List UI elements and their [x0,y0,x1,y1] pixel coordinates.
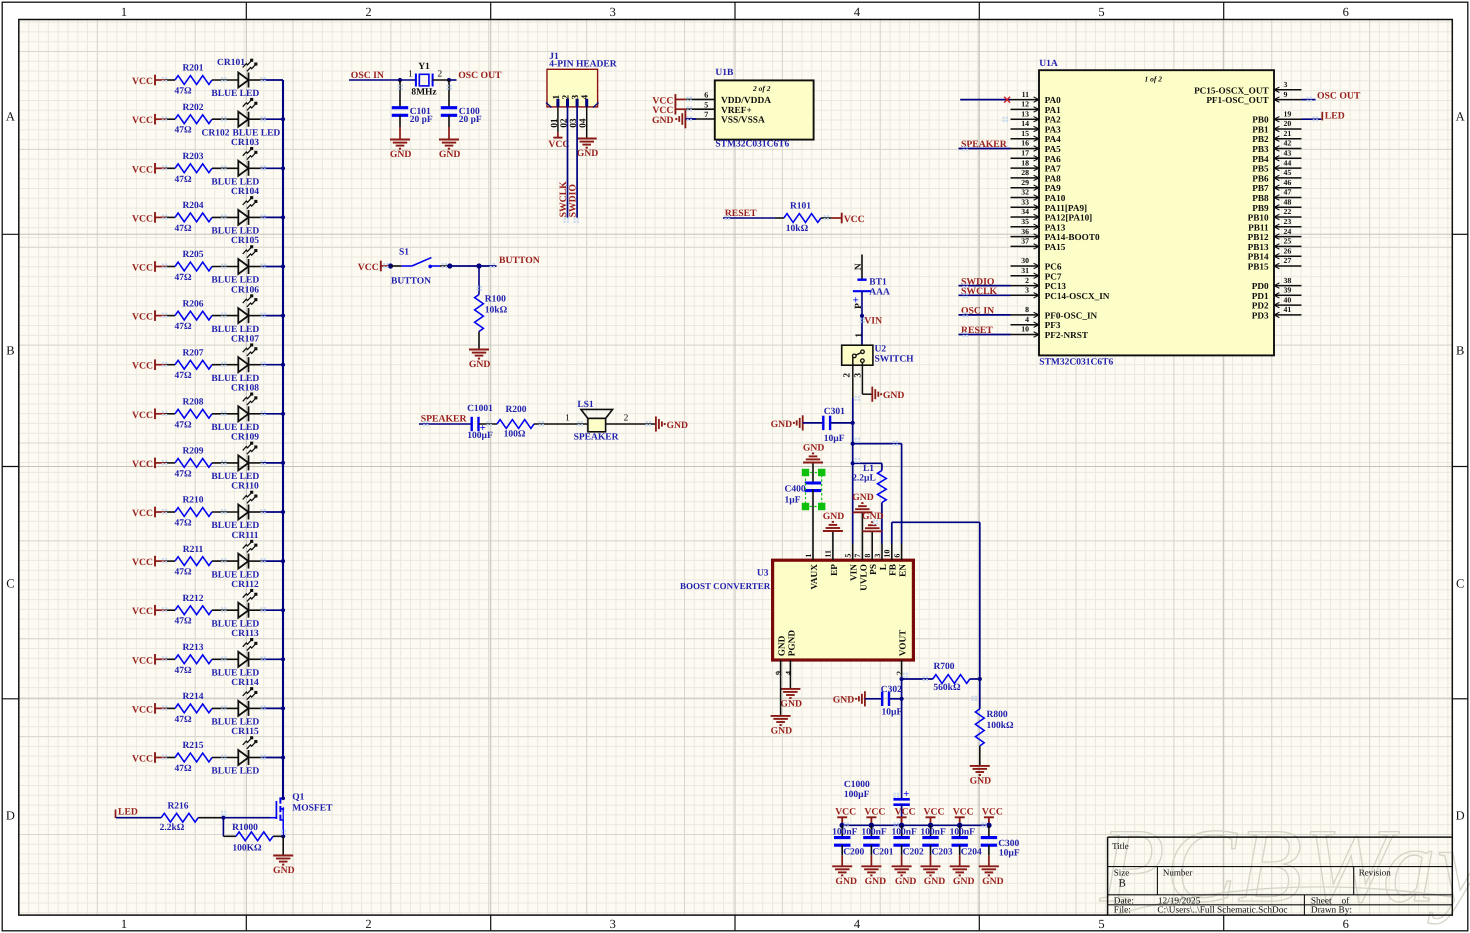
svg-text:PB6: PB6 [1252,173,1269,183]
svg-text:3: 3 [610,5,616,19]
svg-text:BLUE LED: BLUE LED [211,472,259,482]
svg-text:19: 19 [1284,109,1292,118]
svg-text:C300: C300 [998,839,1019,849]
svg-text:GND: GND [780,698,802,709]
svg-text:OSC IN: OSC IN [351,70,384,81]
svg-text:BLUE LED: BLUE LED [211,89,259,99]
svg-text:BLUE LED: BLUE LED [211,423,259,433]
svg-text:S1: S1 [399,247,409,257]
svg-text:22: 22 [1284,207,1292,216]
svg-text:GND: GND [833,695,855,706]
svg-text:R212: R212 [182,594,203,604]
svg-text:BUTTON: BUTTON [391,277,431,287]
svg-text:29: 29 [1021,178,1029,187]
svg-text:U3: U3 [757,568,769,578]
svg-text:VAUX: VAUX [810,564,820,590]
svg-text:9: 9 [774,671,783,675]
svg-text:1 of 2: 1 of 2 [1145,74,1163,83]
svg-text:5: 5 [1098,917,1104,931]
svg-text:VCC: VCC [358,262,379,273]
svg-text:N: N [853,263,864,270]
svg-text:BLUE LED: BLUE LED [211,276,259,286]
svg-text:100kΩ: 100kΩ [987,721,1015,731]
svg-text:PB13: PB13 [1248,242,1269,252]
svg-text:100nF: 100nF [832,827,858,837]
svg-text:GND: GND [577,148,599,159]
svg-text:4-PIN HEADER: 4-PIN HEADER [549,60,616,70]
svg-text:2.2µL: 2.2µL [852,474,876,484]
svg-text:PB12: PB12 [1248,232,1269,242]
svg-text:A: A [1456,110,1465,124]
svg-text:BLUE LED: BLUE LED [233,128,281,138]
svg-text:STM32C031C6T6: STM32C031C6T6 [1039,357,1113,367]
svg-text:L1: L1 [863,464,874,474]
svg-text:B: B [6,344,14,358]
svg-text:U1B: U1B [715,68,734,78]
svg-text:10kΩ: 10kΩ [485,305,508,315]
svg-text:47Ω: 47Ω [174,420,192,430]
svg-text:CR102: CR102 [202,128,230,138]
svg-text:13: 13 [1021,109,1029,118]
svg-text:PF0-OSC_IN: PF0-OSC_IN [1045,310,1098,320]
svg-text:UVLO: UVLO [859,564,869,591]
svg-text:CR107: CR107 [231,334,259,344]
svg-text:6: 6 [892,554,901,558]
svg-text:R204: R204 [182,201,203,211]
svg-text:SPEAKER: SPEAKER [961,139,1008,150]
svg-text:File:: File: [1114,906,1131,916]
svg-text:B: B [1119,878,1126,890]
svg-text:BLUE LED: BLUE LED [211,178,259,188]
svg-text:47Ω: 47Ω [174,568,192,578]
svg-text:LS1: LS1 [577,400,594,410]
svg-text:PF2-NRST: PF2-NRST [1045,330,1088,340]
svg-text:PF3: PF3 [1045,320,1061,330]
svg-text:36: 36 [1021,227,1029,236]
svg-text:3: 3 [571,95,581,100]
svg-text:R800: R800 [987,710,1008,720]
svg-text:GND: GND [469,359,491,370]
svg-text:24: 24 [1284,227,1292,236]
svg-text:BUTTON: BUTTON [499,255,540,266]
svg-text:CR112: CR112 [231,580,259,590]
svg-text:16: 16 [1021,139,1029,148]
svg-text:VCC: VCC [548,139,569,150]
svg-text:C:\Users\..\Full Schematic.Sch: C:\Users\..\Full Schematic.SchDoc [1157,906,1287,916]
svg-text:32: 32 [1021,188,1029,197]
svg-text:OSC OUT: OSC OUT [458,70,502,81]
svg-text:C: C [6,577,14,591]
svg-text:PB3: PB3 [1252,144,1269,154]
svg-text:5: 5 [1098,5,1104,19]
svg-text:EP: EP [830,564,840,576]
svg-text:10µF: 10µF [824,434,845,444]
svg-text:1: 1 [565,414,570,424]
svg-text:R211: R211 [183,545,204,555]
svg-text:PB5: PB5 [1252,164,1269,174]
svg-text:PB2: PB2 [1252,134,1269,144]
svg-text:CR110: CR110 [231,482,259,492]
svg-text:U1A: U1A [1039,59,1058,69]
svg-text:C1001: C1001 [467,404,493,414]
svg-text:VOUT: VOUT [899,629,909,656]
svg-text:R202: R202 [182,103,203,113]
svg-text:40: 40 [1284,295,1292,304]
svg-text:VCC: VCC [924,806,945,817]
svg-text:10kΩ: 10kΩ [786,224,809,234]
svg-text:100µF: 100µF [467,431,493,441]
svg-text:47Ω: 47Ω [174,224,192,234]
svg-text:3: 3 [610,917,616,931]
svg-text:BLUE LED: BLUE LED [211,374,259,384]
svg-text:BLUE LED: BLUE LED [211,619,259,629]
svg-text:PA8: PA8 [1045,173,1062,183]
svg-text:8MHz: 8MHz [411,87,437,97]
svg-text:31: 31 [1021,266,1029,275]
svg-text:GND: GND [652,115,674,126]
svg-text:CR111: CR111 [232,531,259,541]
svg-text:100Ω: 100Ω [504,429,526,439]
svg-text:GND: GND [924,876,946,887]
svg-text:U2: U2 [875,345,887,355]
svg-text:4: 4 [854,5,861,19]
svg-text:5: 5 [844,554,853,558]
svg-text:PB0: PB0 [1252,115,1269,125]
svg-text:7: 7 [704,110,708,119]
svg-text:PB15: PB15 [1248,262,1269,272]
svg-text:VREF+: VREF+ [721,106,752,116]
svg-text:4: 4 [784,671,793,675]
svg-text:VDD/VDDA: VDD/VDDA [721,96,771,106]
svg-text:R100: R100 [485,295,506,305]
svg-text:5: 5 [704,100,708,109]
svg-text:C201: C201 [872,847,893,857]
svg-text:GND: GND [895,876,917,887]
svg-text:21: 21 [1284,129,1292,138]
svg-text:CR105: CR105 [231,236,259,246]
svg-text:GND: GND [970,776,992,787]
svg-text:R208: R208 [182,398,203,408]
svg-text:560kΩ: 560kΩ [933,683,961,693]
svg-text:R214: R214 [182,692,203,702]
svg-text:41: 41 [1284,305,1292,314]
svg-text:44: 44 [1284,158,1292,167]
svg-text:3: 3 [873,554,882,558]
svg-text:PB7: PB7 [1252,183,1269,193]
svg-text:VCC: VCC [132,164,153,175]
svg-text:6: 6 [704,91,708,100]
svg-text:2: 2 [842,373,852,378]
svg-text:CR114: CR114 [231,678,259,688]
svg-text:C200: C200 [843,847,864,857]
svg-text:CR113: CR113 [231,629,259,639]
svg-text:GND: GND [439,149,461,160]
svg-text:GND: GND [273,865,295,876]
svg-text:R101: R101 [790,202,811,212]
svg-text:GND: GND [771,419,793,430]
svg-text:VCC: VCC [835,806,856,817]
svg-text:PC13: PC13 [1045,281,1067,291]
svg-text:1: 1 [121,5,127,19]
svg-text:PB10: PB10 [1248,213,1269,223]
svg-text:GND: GND [835,876,857,887]
svg-text:VCC: VCC [132,312,153,323]
svg-text:PS: PS [869,564,879,575]
svg-text:GND: GND [953,876,975,887]
svg-text:LED: LED [118,807,138,818]
svg-text:20: 20 [1284,119,1292,128]
svg-text:1: 1 [804,554,813,558]
svg-text:47Ω: 47Ω [174,666,192,676]
svg-text:10: 10 [1021,325,1029,334]
svg-text:PC14-OSCX_IN: PC14-OSCX_IN [1045,291,1110,301]
svg-text:VSS/VSSA: VSS/VSSA [721,116,765,126]
svg-text:PB1: PB1 [1252,125,1269,135]
svg-text:17: 17 [1021,149,1029,158]
svg-text:47Ω: 47Ω [174,322,192,332]
svg-text:20 pF: 20 pF [459,115,482,125]
svg-text:PA6: PA6 [1045,154,1062,164]
svg-text:PD0: PD0 [1252,281,1269,291]
svg-text:CR109: CR109 [231,433,259,443]
svg-text:100nF: 100nF [950,827,976,837]
svg-text:BOOST CONVERTER: BOOST CONVERTER [680,581,771,591]
svg-text:4: 4 [581,95,591,100]
svg-text:PA1: PA1 [1045,105,1062,115]
svg-text:30: 30 [1021,256,1029,265]
svg-text:CR103: CR103 [231,138,259,148]
svg-text:PGND: PGND [787,630,797,657]
svg-text:BLUE LED: BLUE LED [211,570,259,580]
svg-text:C202: C202 [903,847,924,857]
svg-text:Number: Number [1163,868,1193,878]
svg-text:PC7: PC7 [1045,271,1062,281]
svg-text:47Ω: 47Ω [174,87,192,97]
svg-text:R209: R209 [182,447,203,457]
svg-text:2: 2 [1025,276,1029,285]
svg-text:2: 2 [365,917,371,931]
svg-text:C203: C203 [932,847,953,857]
svg-text:GND: GND [667,420,689,431]
svg-text:R205: R205 [182,250,203,260]
svg-text:VCC: VCC [132,361,153,372]
svg-text:PC15-OSCX_OUT: PC15-OSCX_OUT [1194,85,1269,95]
svg-text:Q1: Q1 [292,793,304,803]
svg-text:MOSFET: MOSFET [292,804,333,814]
svg-text:R700: R700 [933,662,954,672]
svg-text:34: 34 [1021,207,1029,216]
svg-text:20 pF: 20 pF [410,115,433,125]
svg-text:VCC: VCC [895,806,916,817]
svg-text:47Ω: 47Ω [174,175,192,185]
svg-text:48: 48 [1284,198,1292,207]
svg-text:26: 26 [1284,246,1292,255]
svg-text:VIN: VIN [864,316,882,327]
svg-text:C400: C400 [785,485,806,495]
svg-text:15: 15 [1021,129,1029,138]
svg-text:43: 43 [1284,149,1292,158]
svg-text:PC6: PC6 [1045,262,1062,272]
svg-text:VCC: VCC [132,213,153,224]
svg-text:SWITCH: SWITCH [875,355,915,365]
svg-text:L: L [879,564,889,570]
svg-text:VCC: VCC [132,76,153,87]
svg-text:1: 1 [408,69,413,79]
svg-text:38: 38 [1284,276,1292,285]
svg-text:100µF: 100µF [844,790,870,800]
svg-text:2: 2 [437,69,442,79]
svg-text:25: 25 [1284,237,1292,246]
svg-text:R200: R200 [505,405,526,415]
svg-text:2: 2 [624,414,629,424]
svg-text:VCC: VCC [132,655,153,666]
svg-text:4: 4 [1025,315,1029,324]
svg-text:PA10: PA10 [1045,193,1066,203]
svg-text:47Ω: 47Ω [174,126,192,136]
svg-text:R206: R206 [182,299,203,309]
svg-text:100nF: 100nF [861,827,887,837]
svg-text:PB8: PB8 [1252,193,1269,203]
svg-text:C: C [1456,577,1464,591]
svg-text:VCC: VCC [132,263,153,274]
svg-text:GND: GND [883,390,905,401]
svg-text:Revision: Revision [1359,868,1392,878]
svg-text:BT1: BT1 [869,278,887,288]
svg-text:VCC: VCC [844,214,865,225]
svg-text:Size: Size [1114,868,1130,878]
svg-text:CR108: CR108 [231,384,259,394]
svg-text:R201: R201 [182,64,203,74]
svg-text:2 of 2: 2 of 2 [752,84,771,93]
svg-text:OSC OUT: OSC OUT [1317,90,1361,101]
svg-text:PD1: PD1 [1252,291,1269,301]
svg-text:100nF: 100nF [920,827,946,837]
svg-text:6: 6 [1343,917,1349,931]
svg-text:39: 39 [1284,286,1292,295]
svg-text:10µF: 10µF [999,848,1020,858]
svg-text:PB9: PB9 [1252,203,1269,213]
svg-text:2: 2 [365,5,371,19]
svg-text:11: 11 [824,550,833,558]
svg-text:9: 9 [1284,90,1288,99]
svg-text:PA15: PA15 [1045,242,1066,252]
svg-text:100KΩ: 100KΩ [232,844,262,854]
svg-text:PB14: PB14 [1248,252,1269,262]
svg-text:STM32C031C6T6: STM32C031C6T6 [715,139,789,149]
svg-text:1: 1 [854,333,864,338]
svg-text:B: B [1456,344,1464,358]
svg-text:R213: R213 [182,643,203,653]
svg-text:46: 46 [1284,178,1292,187]
svg-text:VCC: VCC [132,557,153,568]
svg-text:27: 27 [1284,256,1292,265]
svg-text:D: D [6,809,15,823]
svg-text:SWDIO: SWDIO [568,184,579,218]
svg-text:AAA: AAA [869,288,890,298]
svg-text:OSC IN: OSC IN [961,306,994,317]
svg-text:PA4: PA4 [1045,134,1062,144]
svg-text:47Ω: 47Ω [174,273,192,283]
svg-text:3: 3 [1284,80,1288,89]
svg-text:C204: C204 [961,847,982,857]
svg-text:PA11[PA9]: PA11[PA9] [1045,203,1088,213]
svg-text:23: 23 [1284,217,1292,226]
svg-text:CR115: CR115 [231,727,259,737]
svg-text:PB11: PB11 [1248,222,1269,232]
svg-text:PA14-BOOT0: PA14-BOOT0 [1045,232,1100,242]
svg-text:PB4: PB4 [1252,154,1269,164]
svg-text:PA0: PA0 [1045,95,1062,105]
svg-text:47Ω: 47Ω [174,469,192,479]
svg-text:7: 7 [853,554,862,558]
svg-text:47: 47 [1284,188,1292,197]
svg-text:47Ω: 47Ω [174,371,192,381]
svg-text:R1000: R1000 [232,823,258,833]
svg-text:VIN: VIN [850,564,860,581]
svg-text:CR106: CR106 [231,285,259,295]
svg-text:28: 28 [1021,168,1029,177]
svg-text:12: 12 [1021,100,1029,109]
svg-text:8: 8 [1025,305,1029,314]
svg-text:A: A [6,110,15,124]
svg-text:R207: R207 [182,348,203,358]
svg-text:PA2: PA2 [1045,115,1062,125]
svg-text:14: 14 [1021,119,1029,128]
svg-text:PA5: PA5 [1045,144,1062,154]
svg-text:VCC: VCC [132,508,153,519]
svg-text:VCC: VCC [132,704,153,715]
svg-text:1: 1 [121,917,127,931]
svg-text:6: 6 [1343,5,1349,19]
svg-text:GND: GND [982,876,1004,887]
svg-text:R203: R203 [182,152,203,162]
svg-text:R216: R216 [167,801,188,811]
svg-text:PD2: PD2 [1252,301,1269,311]
svg-text:GND: GND [803,442,825,453]
svg-text:CR104: CR104 [231,187,259,197]
svg-text:PA7: PA7 [1045,164,1062,174]
svg-text:C302: C302 [881,685,902,695]
svg-text:11: 11 [1022,90,1029,99]
svg-text:35: 35 [1021,217,1029,226]
svg-text:BLUE LED: BLUE LED [211,325,259,335]
svg-text:BLUE LED: BLUE LED [211,669,259,679]
svg-text:VCC: VCC [132,606,153,617]
svg-text:47Ω: 47Ω [174,715,192,725]
svg-text:33: 33 [1021,198,1029,207]
svg-text:RESET: RESET [961,325,993,336]
svg-text:1µF: 1µF [785,496,801,506]
svg-text:PD3: PD3 [1252,310,1269,320]
svg-text:3: 3 [1025,286,1029,295]
svg-text:BLUE LED: BLUE LED [211,521,259,531]
svg-text:GND: GND [390,149,412,160]
svg-text:C1000: C1000 [844,780,870,790]
svg-text:EN: EN [899,564,909,577]
svg-text:2: 2 [562,95,572,100]
svg-text:GND: GND [865,876,887,887]
svg-text:2.2kΩ: 2.2kΩ [160,823,185,833]
svg-text:GND: GND [852,492,874,503]
svg-text:VCC: VCC [864,806,885,817]
svg-text:8: 8 [863,554,872,558]
svg-text:1: 1 [552,95,562,100]
svg-text:R210: R210 [182,496,203,506]
svg-text:18: 18 [1021,158,1029,167]
svg-text:VCC: VCC [953,806,974,817]
svg-text:VCC: VCC [132,410,153,421]
svg-text:PA12[PA10]: PA12[PA10] [1045,213,1093,223]
